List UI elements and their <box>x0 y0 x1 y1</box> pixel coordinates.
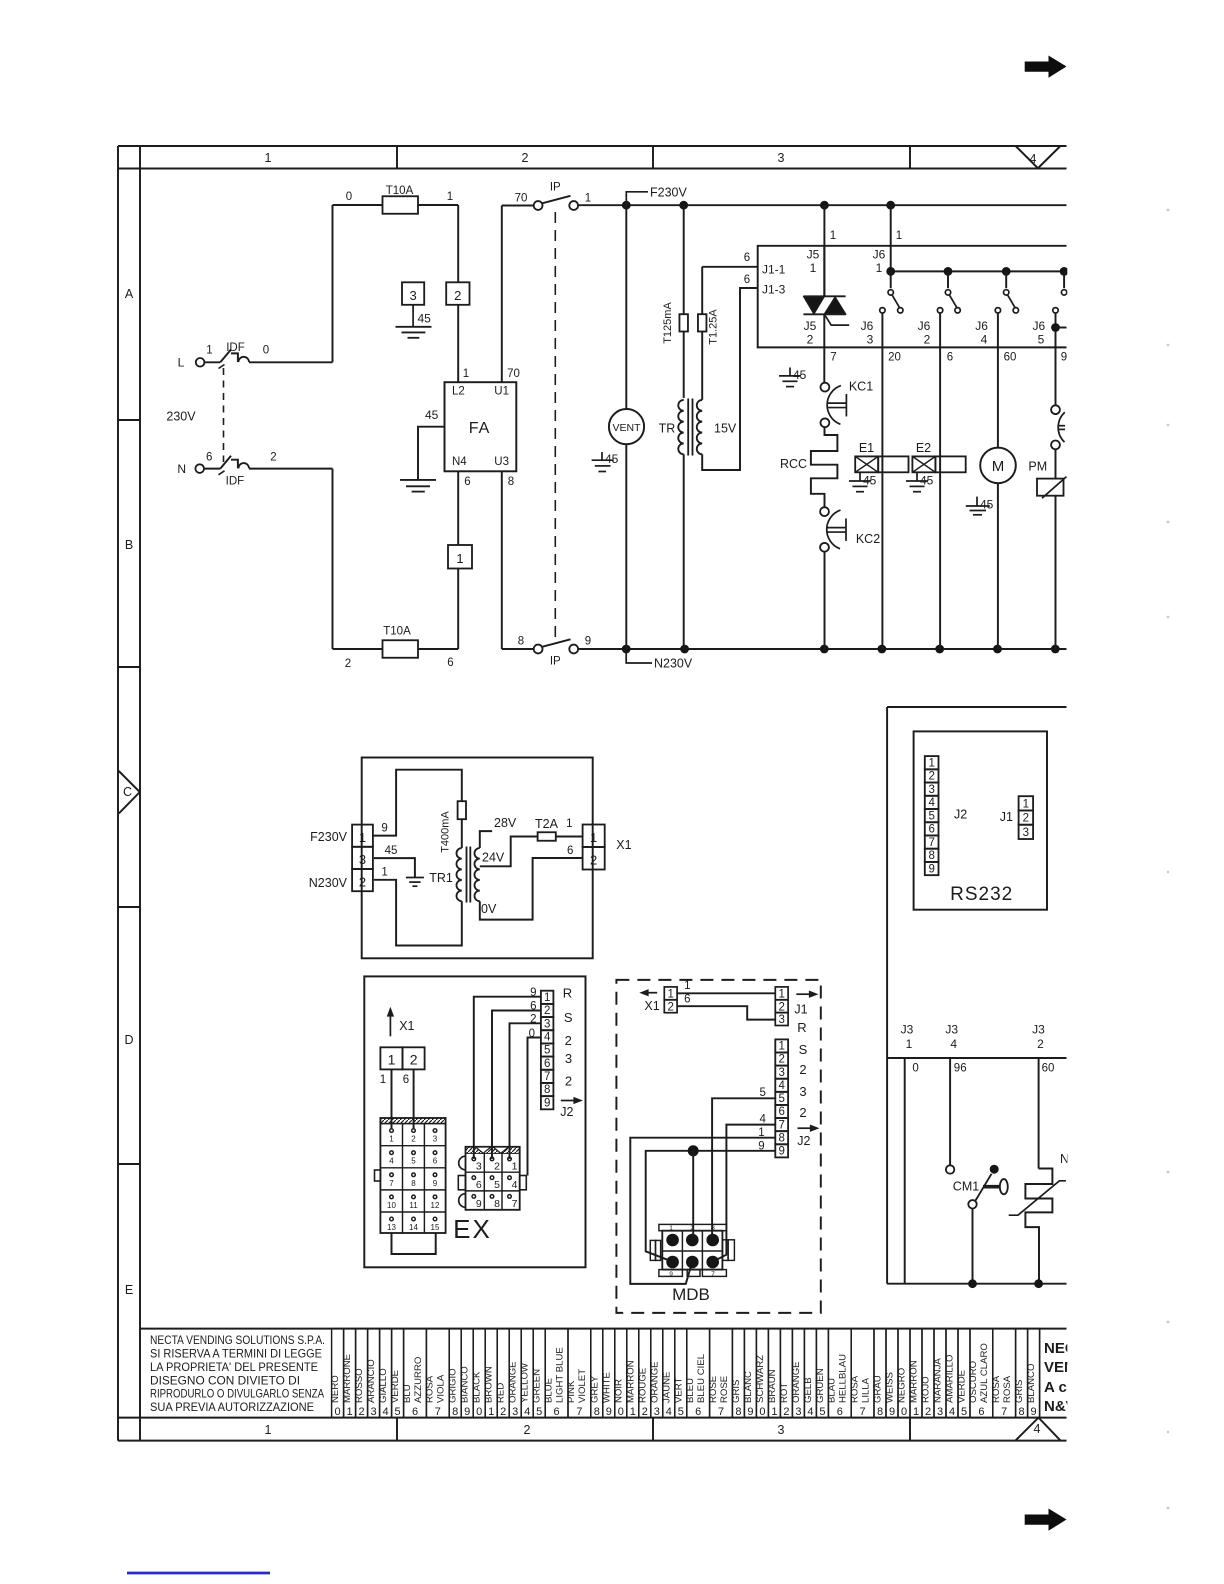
terminal N <box>195 464 204 473</box>
svg-text:15: 15 <box>431 1223 440 1232</box>
thermal cutout above PM <box>1051 405 1060 414</box>
svg-text:9: 9 <box>778 1146 784 1158</box>
3x3 key 2 <box>490 1157 494 1161</box>
keyboard EX box <box>364 976 585 1267</box>
svg-text:3: 3 <box>544 1018 550 1030</box>
svg-text:6: 6 <box>978 1406 984 1418</box>
svg-text:1: 1 <box>388 1052 396 1068</box>
ground 45 left of KC1 <box>789 368 791 376</box>
wire FA U3 down to door switch IP bottom <box>501 471 503 649</box>
fuse T10A top <box>383 196 419 214</box>
power supply box TR1 section <box>362 758 593 959</box>
column 4 triangle marker bottom <box>1016 1418 1061 1441</box>
3x3 bumps left <box>459 1156 466 1170</box>
breaker IDF (N) <box>204 468 220 470</box>
keypad EX 15 keys <box>380 1118 445 1233</box>
arrow J1 (MDB) <box>796 993 811 995</box>
svg-text:NEGRO: NEGRO <box>897 1368 908 1403</box>
legend column 0 NEGRO <box>898 1329 910 1418</box>
legend column 1 BROWN <box>485 1329 497 1418</box>
svg-text:1: 1 <box>810 261 817 275</box>
svg-text:45: 45 <box>863 474 877 488</box>
legend column 7 ROSA/VIOLA <box>426 1329 449 1418</box>
3x3 key 9 <box>472 1195 476 1199</box>
svg-text:PINK: PINK <box>566 1380 577 1403</box>
svg-text:7: 7 <box>389 1179 394 1188</box>
svg-text:6: 6 <box>476 1179 482 1191</box>
3x3 key 7 <box>508 1195 512 1199</box>
tap 24V wire to T2A <box>480 837 538 867</box>
svg-text:FA: FA <box>469 420 491 437</box>
legend column 5 VERDE <box>392 1329 404 1418</box>
legend column 9 BIANCO <box>461 1329 473 1418</box>
svg-text:T2A: T2A <box>535 817 559 831</box>
legend column 9 WEISS <box>886 1329 898 1418</box>
svg-text:J2: J2 <box>954 808 967 822</box>
legend column 7 ROSE/ROSE <box>710 1329 733 1418</box>
svg-text:1: 1 <box>830 230 836 242</box>
legend column 1 MARRON <box>627 1329 639 1418</box>
svg-text:N230V: N230V <box>309 876 348 890</box>
svg-text:DISEGNO CON DIVIETO DI: DISEGNO CON DIVIETO DI <box>150 1373 300 1387</box>
legend column 3 ARANCIO <box>368 1329 380 1418</box>
3x3 key 8 <box>490 1195 494 1199</box>
svg-text:2: 2 <box>783 1406 789 1418</box>
svg-text:6: 6 <box>403 1074 409 1086</box>
frame top band dividers <box>396 146 398 169</box>
svg-text:2: 2 <box>778 1054 784 1066</box>
connector F230V/N230V 3-pin <box>352 825 373 847</box>
svg-text:2: 2 <box>410 1052 418 1068</box>
connector MDB block <box>662 1231 722 1270</box>
svg-text:5: 5 <box>928 810 934 822</box>
terminal box 2 <box>446 282 469 305</box>
legend column 8 GREY <box>591 1329 603 1418</box>
svg-text:5: 5 <box>411 1157 416 1166</box>
svg-text:1: 1 <box>389 1135 394 1144</box>
3x3 left tab <box>458 1176 465 1190</box>
svg-text:5: 5 <box>678 1406 684 1418</box>
svg-text:NECTA VENDING SOLUTIONS S.P.A.: NECTA VENDING SOLUTIONS S.P.A. <box>150 1333 325 1347</box>
svg-text:0: 0 <box>263 345 269 357</box>
legend column 1 MARRONE <box>344 1329 356 1418</box>
svg-text:3: 3 <box>409 288 416 303</box>
svg-text:WEISS: WEISS <box>885 1372 896 1403</box>
svg-text:ROT: ROT <box>779 1383 790 1403</box>
thermistor NTC slash <box>1009 1181 1066 1215</box>
legend column 8 GRAU <box>874 1329 886 1418</box>
legend column 4 GELB <box>804 1329 816 1418</box>
svg-text:J6: J6 <box>1032 319 1045 333</box>
svg-text:3: 3 <box>799 1084 806 1099</box>
terminal box 3 with earth <box>402 282 424 305</box>
svg-text:0: 0 <box>346 191 352 203</box>
svg-text:2: 2 <box>667 1001 673 1013</box>
svg-text:8: 8 <box>411 1179 416 1188</box>
svg-text:7: 7 <box>711 1271 715 1278</box>
svg-text:0: 0 <box>335 1406 341 1418</box>
svg-text:15V: 15V <box>714 422 737 436</box>
svg-text:ORANGE: ORANGE <box>649 1361 660 1403</box>
svg-text:6: 6 <box>778 1106 784 1118</box>
svg-text:45: 45 <box>425 408 439 422</box>
svg-text:T10A: T10A <box>386 185 414 197</box>
svg-text:J5: J5 <box>804 319 817 333</box>
svg-text:J3: J3 <box>945 1023 958 1037</box>
svg-text:IP: IP <box>550 182 561 194</box>
svg-text:S: S <box>564 1010 573 1025</box>
svg-text:3: 3 <box>778 1423 785 1437</box>
legend column 0 NERO <box>332 1329 344 1418</box>
svg-text:2: 2 <box>925 1406 931 1418</box>
svg-text:4: 4 <box>759 1114 766 1126</box>
svg-text:3: 3 <box>371 1406 377 1418</box>
svg-text:PM: PM <box>1028 460 1047 474</box>
wire primary TR with fuse T125mA <box>683 205 685 314</box>
svg-text:2: 2 <box>411 1135 416 1144</box>
svg-text:ROSSO: ROSSO <box>354 1368 365 1403</box>
svg-text:1: 1 <box>590 830 597 845</box>
svg-text:GRIS: GRIS <box>731 1380 742 1403</box>
wire J6-3 down through E1 <box>881 347 883 649</box>
svg-text:N4: N4 <box>452 456 467 468</box>
svg-text:2: 2 <box>544 1005 550 1017</box>
svg-text:GREY: GREY <box>589 1375 600 1403</box>
svg-text:U1: U1 <box>494 386 509 398</box>
connector J2 (EX) 9-pin <box>541 991 554 1004</box>
svg-text:9: 9 <box>476 1198 482 1210</box>
svg-text:OSCURO: OSCURO <box>968 1361 979 1403</box>
svg-text:9: 9 <box>889 1406 895 1418</box>
legend column 3 ORANGE <box>509 1329 521 1418</box>
svg-text:MARRONE: MARRONE <box>342 1354 353 1403</box>
connector X1 (MDB) 2-pin <box>664 987 677 1000</box>
tap 28V stub <box>480 831 492 848</box>
legend column 4 YELLOW <box>521 1329 533 1418</box>
door switch IP bottom <box>534 645 543 654</box>
svg-text:BLU: BLU <box>402 1384 413 1403</box>
svg-text:6: 6 <box>837 1406 843 1418</box>
svg-text:R: R <box>563 986 572 1001</box>
svg-text:8: 8 <box>494 1198 500 1210</box>
relay rail inside board <box>891 270 1067 272</box>
svg-text:70: 70 <box>507 368 520 380</box>
frame bottom band dividers <box>396 1418 398 1441</box>
wire J3-2 <box>1038 1058 1040 1169</box>
3x3 key 3 <box>472 1157 476 1161</box>
legend column 6 BLAU/HELLBLAU <box>828 1329 851 1418</box>
svg-text:SI RISERVA A TERMINI DI LEGGE: SI RISERVA A TERMINI DI LEGGE <box>150 1347 322 1361</box>
svg-text:6: 6 <box>530 1001 536 1013</box>
svg-text:1: 1 <box>758 1127 764 1139</box>
connector J2 (MDB) 9-pin <box>775 1039 788 1052</box>
svg-text:4: 4 <box>950 1037 957 1051</box>
svg-text:8: 8 <box>928 850 934 862</box>
svg-text:6: 6 <box>684 994 690 1006</box>
svg-text:N: N <box>177 462 186 476</box>
svg-text:1: 1 <box>771 1406 777 1418</box>
svg-text:IDF: IDF <box>226 342 245 354</box>
svg-text:2: 2 <box>642 1406 648 1418</box>
wire L up to top <box>332 205 334 362</box>
svg-text:8: 8 <box>544 1084 550 1096</box>
svg-text:LILLA: LILLA <box>860 1377 871 1403</box>
frame outer border <box>117 146 119 1441</box>
connector X1 (TR1) <box>583 825 605 848</box>
svg-text:KC2: KC2 <box>856 532 880 546</box>
wire FA N4 down to box 1 <box>457 471 459 545</box>
arrow J2 (MDB) <box>798 1127 813 1129</box>
svg-text:F230V: F230V <box>310 830 347 844</box>
svg-text:9: 9 <box>758 1141 764 1153</box>
svg-text:2: 2 <box>807 333 814 347</box>
svg-text:ORANGE: ORANGE <box>791 1361 802 1403</box>
svg-text:4: 4 <box>512 1179 518 1191</box>
svg-text:M: M <box>992 458 1005 475</box>
svg-text:7: 7 <box>576 1406 582 1418</box>
svg-text:70: 70 <box>515 193 528 205</box>
svg-text:J1: J1 <box>794 1003 807 1017</box>
svg-text:A: A <box>125 287 134 301</box>
svg-text:5: 5 <box>819 1406 825 1418</box>
motor M <box>980 448 1016 484</box>
svg-text:D: D <box>124 1033 133 1047</box>
svg-text:MDB: MDB <box>672 1285 710 1304</box>
svg-text:4: 4 <box>778 1080 785 1092</box>
svg-text:8: 8 <box>735 1406 741 1418</box>
svg-text:5: 5 <box>544 1045 550 1057</box>
svg-text:8: 8 <box>594 1406 600 1418</box>
svg-text:4: 4 <box>981 333 988 347</box>
relay switch J6-3 <box>890 271 892 288</box>
wire J6-5 down to PM <box>1055 347 1057 405</box>
svg-text:13: 13 <box>387 1223 396 1232</box>
svg-text:BLANC: BLANC <box>743 1371 754 1403</box>
svg-text:1: 1 <box>667 989 673 1001</box>
svg-text:8: 8 <box>778 1132 784 1144</box>
svg-text:T1.25A: T1.25A <box>708 309 720 345</box>
svg-text:ROSA: ROSA <box>425 1375 436 1403</box>
svg-text:5: 5 <box>494 1179 500 1191</box>
svg-text:GRIGIO: GRIGIO <box>448 1368 459 1403</box>
legend column 0 NOIR <box>615 1329 627 1418</box>
svg-text:BLACK: BLACK <box>472 1371 483 1403</box>
svg-text:24V: 24V <box>482 851 505 865</box>
thermal cutout KC2 <box>820 507 829 516</box>
3x3 key 1 <box>508 1157 512 1161</box>
wire J6-2 down through E2 <box>939 347 941 649</box>
legend column 8 GRIS <box>732 1329 744 1418</box>
svg-text:ROSA: ROSA <box>1002 1375 1013 1403</box>
svg-text:6: 6 <box>554 1406 560 1418</box>
connector J6 pin1 wire <box>890 205 892 271</box>
svg-text:X1: X1 <box>399 1019 414 1033</box>
wire FA U1 up to door switch IP <box>501 206 503 383</box>
svg-text:4: 4 <box>524 1406 530 1418</box>
svg-text:GRUEN: GRUEN <box>815 1368 826 1403</box>
legend column 6 BLEU/BLEU CIEL <box>687 1329 710 1418</box>
svg-text:8: 8 <box>508 476 514 488</box>
legend column 6 OSCURO/AZUL CLARO <box>970 1329 993 1418</box>
svg-text:J3: J3 <box>901 1023 914 1037</box>
svg-text:X1: X1 <box>616 838 631 852</box>
relay switch J6-4 <box>1005 271 1007 288</box>
legend column 9 BLANC <box>744 1329 756 1418</box>
svg-text:2: 2 <box>1037 1037 1044 1051</box>
frame left band dividers <box>118 419 140 421</box>
wire X1-2 to J1-3 (MDB) <box>677 1006 775 1019</box>
svg-text:60: 60 <box>1004 352 1017 364</box>
transformer TR secondary coil <box>697 400 702 454</box>
legend column 5 GRUEN <box>816 1329 828 1418</box>
svg-text:NARANJA: NARANJA <box>933 1358 944 1403</box>
svg-text:14: 14 <box>409 1223 418 1232</box>
legend column 9 BLANCO <box>1028 1329 1040 1418</box>
svg-text:8: 8 <box>877 1406 883 1418</box>
transformer TR1 core <box>466 847 468 903</box>
scan cut mask right edge <box>1067 170 1152 1445</box>
svg-text:TR: TR <box>659 422 676 436</box>
svg-text:2: 2 <box>590 853 597 868</box>
junction J6-5 branch <box>1051 323 1060 332</box>
svg-text:L2: L2 <box>452 386 465 398</box>
MDB block bottom band <box>659 1270 683 1277</box>
svg-text:L: L <box>178 356 185 370</box>
keypad bottom link wire <box>392 1233 436 1254</box>
legend column 0 BLACK <box>473 1329 485 1418</box>
svg-text:9: 9 <box>464 1406 470 1418</box>
wire KC2 to bus <box>824 552 826 649</box>
svg-text:11: 11 <box>409 1201 418 1210</box>
svg-text:BRAUN: BRAUN <box>767 1369 778 1403</box>
legend column 1 MARRON <box>910 1329 922 1418</box>
svg-text:GRAU: GRAU <box>873 1375 884 1403</box>
svg-text:7: 7 <box>830 352 836 364</box>
wire X1-1 to J1-1 (MDB) <box>677 992 775 994</box>
svg-text:LIGHT BLUE: LIGHT BLUE <box>554 1347 565 1403</box>
legend column 7 ROSA/ROSA <box>993 1329 1016 1418</box>
svg-text:45: 45 <box>980 498 994 512</box>
svg-text:E: E <box>125 1283 133 1297</box>
svg-text:2: 2 <box>359 874 366 889</box>
svg-text:2: 2 <box>565 1033 572 1048</box>
selection connector 3x3 <box>466 1147 520 1210</box>
svg-text:3: 3 <box>565 1051 572 1066</box>
svg-text:RCC: RCC <box>780 457 807 471</box>
svg-text:1: 1 <box>778 989 784 1001</box>
svg-text:2: 2 <box>530 1014 536 1026</box>
svg-text:4: 4 <box>1034 1422 1041 1436</box>
svg-text:3: 3 <box>359 852 366 867</box>
breaker IDF (L) <box>204 361 220 363</box>
svg-text:9: 9 <box>381 823 387 835</box>
MDB block top band <box>659 1224 727 1230</box>
transformer TR primary coil <box>678 400 683 454</box>
svg-text:6: 6 <box>464 476 470 488</box>
svg-text:F230V: F230V <box>650 186 687 200</box>
svg-text:E1: E1 <box>859 441 874 455</box>
svg-text:ROJO: ROJO <box>921 1376 932 1403</box>
svg-text:1: 1 <box>456 551 463 566</box>
svg-text:YELLOW: YELLOW <box>520 1362 531 1403</box>
svg-text:4: 4 <box>666 1406 672 1418</box>
wire J2-7 (MDB) <box>714 1125 776 1262</box>
svg-text:B: B <box>125 538 133 552</box>
relay switch J6-2 <box>947 271 949 288</box>
keypad left tab <box>375 1170 381 1181</box>
svg-text:ROSA: ROSA <box>849 1375 860 1403</box>
svg-text:ROSE: ROSE <box>708 1376 719 1403</box>
svg-text:J6: J6 <box>918 319 931 333</box>
svg-text:J1-1: J1-1 <box>762 263 786 277</box>
svg-text:GELB: GELB <box>803 1377 814 1403</box>
svg-text:96: 96 <box>954 1063 967 1075</box>
svg-text:6: 6 <box>567 845 573 857</box>
svg-text:1: 1 <box>265 1423 272 1437</box>
svg-text:VIOLET: VIOLET <box>577 1369 588 1403</box>
svg-text:3: 3 <box>778 1067 784 1079</box>
MDB block pins <box>666 1234 679 1247</box>
svg-text:5: 5 <box>395 1406 401 1418</box>
svg-text:1: 1 <box>684 980 690 992</box>
payment box MDB dashed <box>616 980 820 1313</box>
bus interface bottom <box>887 1283 1066 1285</box>
svg-text:SUA PREVIA AUTORIZZAZIONE: SUA PREVIA AUTORIZZAZIONE <box>150 1400 314 1414</box>
svg-text:0: 0 <box>901 1406 907 1418</box>
svg-text:BLUE: BLUE <box>543 1378 554 1403</box>
svg-text:ORANGE: ORANGE <box>508 1361 519 1403</box>
legend column 5 VERDE <box>958 1329 970 1418</box>
electrovalve E2 <box>912 456 935 472</box>
wire X1-2 to key 2 <box>413 1069 415 1129</box>
wire J2-5 (MDB) <box>712 1098 775 1236</box>
legend column 5 GREEN <box>533 1329 545 1418</box>
wire J3-1 <box>904 1058 906 1284</box>
svg-text:6: 6 <box>695 1406 701 1418</box>
svg-text:1: 1 <box>265 151 272 165</box>
svg-text:0: 0 <box>529 1028 535 1040</box>
svg-text:8: 8 <box>452 1406 458 1418</box>
svg-text:BLANCO: BLANCO <box>1026 1364 1037 1403</box>
svg-text:R: R <box>797 1020 806 1035</box>
svg-text:7: 7 <box>860 1406 866 1418</box>
svg-text:45: 45 <box>385 845 398 857</box>
terminal box 1 <box>448 545 472 569</box>
label N230V leader <box>626 649 652 663</box>
svg-text:BROWN: BROWN <box>484 1366 495 1403</box>
svg-text:20: 20 <box>888 352 901 364</box>
svg-text:5: 5 <box>1038 333 1045 347</box>
3x3 key 6 <box>472 1176 476 1180</box>
svg-text:EX: EX <box>453 1214 492 1244</box>
wire J2-8 (MDB) <box>630 1138 775 1284</box>
arrow J2 (EX) <box>561 1100 576 1102</box>
svg-text:60: 60 <box>1042 1063 1055 1075</box>
filter FA box <box>445 382 517 471</box>
svg-text:J2: J2 <box>797 1134 810 1148</box>
wire J5-2 down <box>823 347 825 382</box>
legend column 2 ROT <box>780 1329 792 1418</box>
svg-text:7: 7 <box>1001 1406 1007 1418</box>
connector J2 (RS232) 9-pin <box>925 756 939 769</box>
svg-text:3: 3 <box>1023 827 1029 839</box>
svg-text:7: 7 <box>928 837 934 849</box>
svg-text:45: 45 <box>605 452 619 466</box>
svg-text:4: 4 <box>949 1406 955 1418</box>
relay switch J6-5 <box>1063 271 1065 288</box>
svg-text:J6: J6 <box>873 248 886 262</box>
fan VENT <box>625 205 627 409</box>
